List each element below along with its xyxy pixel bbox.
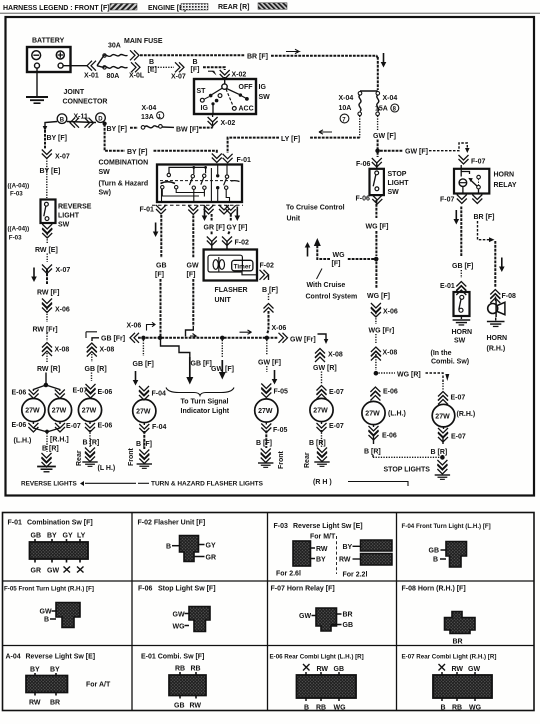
svg-text:GW: GW [47,568,59,575]
svg-text:F-07 Horn Relay [F]: F-07 Horn Relay [F] [271,586,335,593]
svg-text:HORN: HORN [452,329,473,336]
svg-text:RW: RW [339,557,351,564]
label (A-04) F-03 lower [8,226,30,242]
svg-text:RW: RW [452,666,464,673]
svg-text:[F]: [F] [187,272,196,279]
svg-text:(L.H.): (L.H.) [388,411,406,418]
arrow BR down [499,258,505,273]
svg-text:(L H.): (L H.) [98,465,116,472]
ground stop lights [435,460,450,479]
svg-text:Front: Front [278,450,285,469]
svg-text:10A: 10A [339,105,352,112]
svg-text:SW: SW [454,338,466,345]
svg-text:IG: IG [259,84,267,91]
svg-text:F-07: F-07 [440,197,455,204]
svg-text:Rear: Rear [304,452,311,468]
node front LH [141,336,145,340]
svg-text:STOP: STOP [388,171,407,178]
svg-text:Reverse Light Sw [E]: Reverse Light Sw [E] [293,523,363,530]
fuse X-04 15A [375,92,399,116]
lamp stop RH 27W [432,404,475,427]
wire BY to fuse X-04 13A [130,127,138,129]
svg-text:E-07: E-07 [451,395,466,402]
svg-text:B [R]: B [R] [364,449,381,456]
harness legend bar [0,3,540,13]
svg-text:(R.H.): (R.H.) [457,411,476,418]
main fuse 30A [97,43,128,66]
svg-text:Indicator Light: Indicator Light [181,408,230,415]
front LH bottom chain [136,423,167,469]
svg-text:E-07: E-07 [66,423,81,430]
svg-text:X-06: X-06 [272,325,287,332]
label TURN & HAZARD FLASHER LIGHTS [138,481,264,488]
connector X-07 lower [42,265,70,275]
connector E-06 stop LH [370,387,397,401]
svg-text:F-05 Front Turn Light (R.H.): F-05 Front Turn Light (R.H.) [F] [4,586,94,593]
svg-text:[F]: [F] [332,261,341,268]
svg-text:BY [F]: BY [F] [107,126,127,133]
svg-text:REAR [R]: REAR [R] [218,4,250,11]
reverse light switch F-03 [41,200,56,224]
svg-text:E-06: E-06 [382,433,397,440]
connector F-01 top [212,154,251,165]
svg-text:RW [Fr]: RW [Fr] [33,327,58,334]
svg-text:E-06: E-06 [98,389,113,396]
svg-text:B [R]: B [R] [309,440,326,447]
svg-text:X-08: X-08 [55,347,70,354]
svg-text:STOP LIGHTS: STOP LIGHTS [384,467,431,474]
svg-text:MAIN FUSE: MAIN FUSE [124,38,163,45]
svg-text:27W: 27W [365,411,380,418]
svg-text:80A: 80A [107,73,120,80]
svg-text:GW: GW [40,609,52,616]
svg-text:F-02 Flasher Unit [F]: F-02 Flasher Unit [F] [138,520,206,527]
svg-text:F-06: F-06 [356,196,371,203]
svg-text:X-04: X-04 [142,105,157,112]
cell F-03 Reverse Light Sw [274,523,393,579]
wire WG [Fr] [369,313,395,343]
arrow on LY line [319,130,332,134]
wire GW [Fr] to rear RH [272,325,329,344]
node front RH [265,336,269,340]
svg-text:BY [E]: BY [E] [40,168,61,175]
label GR [F] GY [F] [204,225,248,232]
wire WG [R] branch [379,372,450,391]
svg-text:BR [F]: BR [F] [247,54,268,61]
svg-text:TURN & HAZARD FLASHER LIGHTS: TURN & HAZARD FLASHER LIGHTS [151,481,264,488]
svg-text:E-06: E-06 [98,423,113,430]
svg-text:X-02: X-02 [232,72,247,79]
label F-01 left [140,207,155,214]
label FLASHER UNIT [215,287,248,304]
svg-text:E-01 Combi. Sw [F]: E-01 Combi. Sw [F] [141,654,204,661]
svg-text:F-05: F-05 [273,427,288,434]
svg-text:BR: BR [50,700,60,707]
svg-text:GB [F]: GB [F] [133,361,154,368]
cell F-02 Flasher Unit [138,520,217,562]
lamp reverse LH 27W [22,398,45,421]
svg-text:E-07: E-07 [329,423,344,430]
wire WG to stop lamps [375,354,377,370]
svg-text:SW: SW [58,222,70,229]
svg-text:GB [R]: GB [R] [85,366,107,373]
svg-text:To Cruise Control: To Cruise Control [286,205,345,212]
label MAIN FUSE [124,38,163,45]
svg-text:F-01: F-01 [237,157,252,164]
svg-text:X-02: X-02 [221,120,236,127]
svg-text:RW [E]: RW [E] [35,247,58,254]
connector F-08 [490,290,516,304]
wire B [R] stop join [373,455,445,473]
svg-text:UNIT: UNIT [215,297,232,304]
ground horn switch [453,316,471,325]
svg-text:RW [F]: RW [F] [37,290,59,297]
svg-text:F-01: F-01 [8,520,23,527]
label Front rotated left [128,447,135,466]
svg-text:E-06 Rear Combi Light (L.H.) [: E-06 Rear Combi Light (L.H.) [R] [270,654,364,661]
svg-text:GB [F]: GB [F] [452,263,473,270]
cell E-01 Combi Sw [141,654,206,710]
stop LH bottom chain [364,425,397,458]
labels (L.H.) [R.H.] [14,437,69,445]
svg-text:WG: WG [333,252,346,259]
svg-text:X-0L: X-0L [129,73,145,80]
battery [27,38,71,73]
svg-text:X-07: X-07 [171,74,186,81]
main fuse 80A [97,66,128,80]
node WG split [374,371,379,376]
svg-text:RW: RW [190,703,202,710]
svg-text:GB: GB [174,703,185,710]
svg-text:FLASHER: FLASHER [215,287,248,294]
svg-text:(Turn & Hazard: (Turn & Hazard [99,181,149,188]
connector X-08 rear RH [315,349,343,363]
svg-text:WG: WG [173,624,186,631]
svg-text:((A-04)): ((A-04)) [8,183,30,190]
label STOP LIGHT SW [388,171,410,196]
wire GW [F] from 15A fuse [373,116,396,149]
svg-text:GB: GB [334,666,345,673]
cell F-01 Combination Sw [8,520,93,575]
wire battery plus to X-01 [63,65,87,67]
svg-text:WG [F]: WG [F] [367,293,390,300]
svg-text:B: B [166,544,171,551]
svg-text:F-04: F-04 [152,391,167,398]
svg-text:F-04: F-04 [152,424,167,431]
label HORN (R.H.) [487,335,508,353]
svg-text:RW [R]: RW [R] [37,366,60,373]
svg-text:27W: 27W [136,409,151,416]
lamp front turn RH 27W [255,399,278,422]
wire GB [F] front LH drop [133,340,154,386]
svg-text:X-06: X-06 [55,307,70,314]
svg-text:[F]: [F] [191,67,200,74]
arrow on distribution line [240,330,252,334]
jog arrow left [147,322,156,330]
svg-text:13A: 13A [141,114,154,121]
label IG SW [259,84,271,101]
wire B [R] reverse [42,430,59,467]
label To Cruise Control Unit [286,205,345,223]
lamp rear turn LH 27W [78,398,101,421]
svg-text:BY [F]: BY [F] [47,135,67,142]
wire RW [Fr] [33,309,58,342]
wire GW [F] to indicator [211,340,234,380]
svg-text:LIGHT: LIGHT [58,213,80,220]
svg-text:(L.H.): (L.H.) [14,438,32,445]
svg-text:X-04: X-04 [339,95,354,102]
stop RH bottom chain [431,427,466,458]
svg-text:For M/T: For M/T [310,534,336,541]
svg-text:SW: SW [388,189,400,196]
svg-text:SW: SW [99,169,111,176]
reverse LH bottom connector [12,422,46,432]
svg-text:COMBINATION: COMBINATION [99,160,149,167]
svg-text:GW [Fr]: GW [Fr] [290,337,316,344]
svg-text:GW: GW [299,613,311,620]
branch to reverse bulb LH [12,385,46,399]
svg-text:WG: WG [469,705,482,712]
connector X-06 WG [371,303,398,317]
connector F-06 top [356,152,382,169]
svg-text:27W: 27W [313,408,328,415]
svg-text:Unit: Unit [287,216,301,223]
connector E-06 rear LH [86,384,113,398]
svg-text:1: 1 [158,114,161,120]
svg-text:B [F]: B [F] [256,440,272,447]
svg-text:X-07: X-07 [55,154,70,161]
connector X-06 left [42,299,70,314]
svg-text:GW [F]: GW [F] [373,133,396,140]
svg-text:F-08 Horn (R.H.) [F]: F-08 Horn (R.H.) [F] [402,586,466,593]
wire B [E] [148,59,175,74]
svg-text:BW [F]: BW [F] [176,127,199,134]
svg-text:SW: SW [259,94,271,101]
svg-text:For 2.6l: For 2.6l [276,571,301,578]
arrow left of GB wire [153,223,159,238]
svg-text:BY: BY [50,667,60,674]
connector table frame [3,513,535,711]
svg-text:GR: GR [206,555,217,562]
svg-text:BY: BY [343,544,353,551]
svg-text:RW: RW [317,666,329,673]
connector X-07 top [171,62,186,80]
svg-text:BATTERY: BATTERY [32,38,65,45]
svg-text:GB: GB [429,548,440,555]
wire GW [F] front RH drop [258,340,281,385]
wire GR [F] [211,214,213,235]
arrow down at BR corner [381,53,387,68]
svg-text:X-08: X-08 [100,347,115,354]
svg-text:X-07: X-07 [56,267,71,274]
wire BY [F] horizontal to combination switch [127,149,217,156]
wire LY [F] [228,116,360,153]
svg-text:LY [F]: LY [F] [281,136,300,143]
connector X-02 top [208,70,246,79]
fuse X-04 10A [339,92,362,124]
horn relay F-07 [454,165,489,194]
svg-text:B: B [149,59,154,66]
svg-text:REVERSE: REVERSE [58,204,92,211]
svg-text:F-02: F-02 [260,263,275,270]
wire BR [F] top line [140,55,378,90]
wire GW [R] [313,365,337,384]
svg-text:F-06: F-06 [356,161,371,168]
label REVERSE LIGHT SW [58,204,92,229]
svg-text:F-03: F-03 [10,191,23,198]
svg-text:With Cruise: With Cruise [307,282,346,289]
svg-text:B: B [433,557,438,564]
battery ground wire [36,68,38,97]
label BY [F] on joint output [107,126,127,133]
svg-text:F-03: F-03 [9,235,22,242]
svg-text:GW: GW [173,612,185,619]
svg-text:B [R]: B [R] [42,446,59,453]
label (A-04) F-03 upper [8,183,30,198]
svg-text:RB: RB [316,705,326,712]
svg-text:WG [Fr]: WG [Fr] [369,328,395,335]
wire RW [E] [35,234,58,262]
svg-text:To Turn Signal: To Turn Signal [181,399,229,406]
svg-text:RW: RW [29,700,41,707]
wire WG [F] stop light vertical [366,200,389,256]
svg-text:F-07: F-07 [471,159,486,166]
svg-text:Reverse Light Sw [E]: Reverse Light Sw [E] [26,654,96,661]
wire B [F] to ignition switch [191,59,225,74]
svg-text:Sw): Sw) [99,190,111,197]
svg-text:[E]: [E] [148,67,157,74]
svg-text:27W: 27W [25,408,40,415]
rear LH bottom chain [82,422,115,472]
wire GB [F] comb sw vertical [155,215,167,336]
svg-text:OFF: OFF [239,84,254,91]
svg-text:E-06: E-06 [383,389,398,396]
cell E-07 Rear Combi Light RH [402,654,497,712]
svg-text:GB [F]: GB [F] [191,361,212,368]
rear RH bottom chain [309,422,344,467]
svg-text:F-06: F-06 [138,586,153,593]
svg-text:RELAY: RELAY [494,182,517,189]
label Rear rotated left [76,450,83,466]
fuse block feed bar [360,90,378,92]
connector F-02 top [207,237,249,250]
connector F-07 bottom BR [472,195,482,204]
label BR [F] [247,54,268,61]
svg-text:LIGHT: LIGHT [388,180,410,187]
front RH bottom chain [256,422,288,467]
connector E-07 rear RH [317,386,344,400]
svg-text:B: B [60,117,65,123]
svg-text:BY [F]: BY [F] [127,149,147,156]
cell F-05 Front Turn Light RH [4,586,94,628]
connector X-07 left [42,150,70,161]
wire from B to BY [F] corner [43,122,58,132]
svg-text:HARNESS LEGEND : FRONT [F]: HARNESS LEGEND : FRONT [F] [3,5,110,12]
connector X-08 WG [371,347,397,361]
wire GB [F] horn [452,207,473,279]
svg-text:Control System: Control System [306,294,358,301]
svg-text:E-01: E-01 [440,283,455,290]
connector F-05 top [261,384,288,398]
wire BY [F] from D down [105,124,125,151]
svg-text:GW: GW [187,263,199,270]
connector F-02 right [260,263,275,281]
label With Cruise Control System [306,269,358,301]
svg-text:27W: 27W [52,408,67,415]
stop light switch F-06 [370,169,384,195]
svg-text:[R.H.]: [R.H.] [50,437,69,444]
svg-text:BY: BY [316,557,326,564]
connector X-0L [129,50,145,79]
svg-text:ENGINE [E]: ENGINE [E] [148,5,186,12]
svg-text:X-04: X-04 [383,95,398,102]
svg-text:GW [F]: GW [F] [405,149,428,156]
svg-text:27W: 27W [258,408,273,415]
ground reverse lights [37,467,56,472]
svg-text:X-01: X-01 [84,73,99,80]
node cruise branch [374,257,379,262]
connector X-01 [84,61,99,80]
connector F-01 bottom [152,205,243,221]
label JOINT CONNECTOR [63,89,108,106]
svg-text:CONNECTOR: CONNECTOR [63,99,108,106]
combination switch box F-01 [157,165,242,203]
svg-text:Stop Light Sw [F]: Stop Light Sw [F] [158,586,216,593]
svg-text:Combination Sw [F]: Combination Sw [F] [27,520,93,527]
wire RW [R] [37,353,60,383]
svg-text:GR [F]: GR [F] [204,225,225,232]
wire GW [F] comb sw vertical [186,216,199,339]
label HORN SW (In the Combi. Sw) [431,329,473,366]
connector F-04 top [139,386,166,400]
connector below reverse switch [42,224,52,238]
svg-text:Timer: Timer [234,263,252,270]
svg-text:GW: GW [468,666,480,673]
svg-text:((A-04)): ((A-04)) [8,226,30,233]
connector E-01 horn switch [440,282,466,296]
svg-text:X-08: X-08 [383,350,398,357]
connector F-06 below switch [356,195,383,204]
svg-text:GW [F]: GW [F] [258,360,281,367]
connector X-02 bottom [208,114,236,128]
svg-text:GR: GR [31,568,42,575]
svg-text:F-04 Front Turn Light (L.H.) [: F-04 Front Turn Light (L.H.) [F] [402,523,491,530]
cell F-08 Horn RH [402,586,476,646]
svg-text:For 2.2l: For 2.2l [343,572,368,579]
svg-text:E-06: E-06 [12,390,27,397]
svg-text:B: B [44,617,49,624]
svg-text:27W: 27W [82,408,97,415]
lamp reverse RH 27W [48,398,71,421]
svg-text:D: D [98,116,103,122]
svg-text:BY: BY [30,667,40,674]
wire GB [Fr] from X-06 [86,323,141,343]
main diagram border frame [6,17,535,496]
battery ground [26,97,48,103]
svg-text:GY: GY [206,543,216,550]
svg-text:BR: BR [453,639,463,646]
svg-text:B: B [304,705,309,712]
svg-text:27W: 27W [435,413,450,420]
svg-text:30A: 30A [108,43,121,50]
svg-text:GB: GB [156,263,167,270]
connector F-07 bottom GW [440,195,467,225]
svg-text:E-07: E-07 [451,434,466,441]
svg-text:IG: IG [201,105,209,112]
svg-text:Front: Front [128,447,135,466]
flasher unit F-02 [204,250,257,281]
svg-text:RB: RB [191,666,201,673]
